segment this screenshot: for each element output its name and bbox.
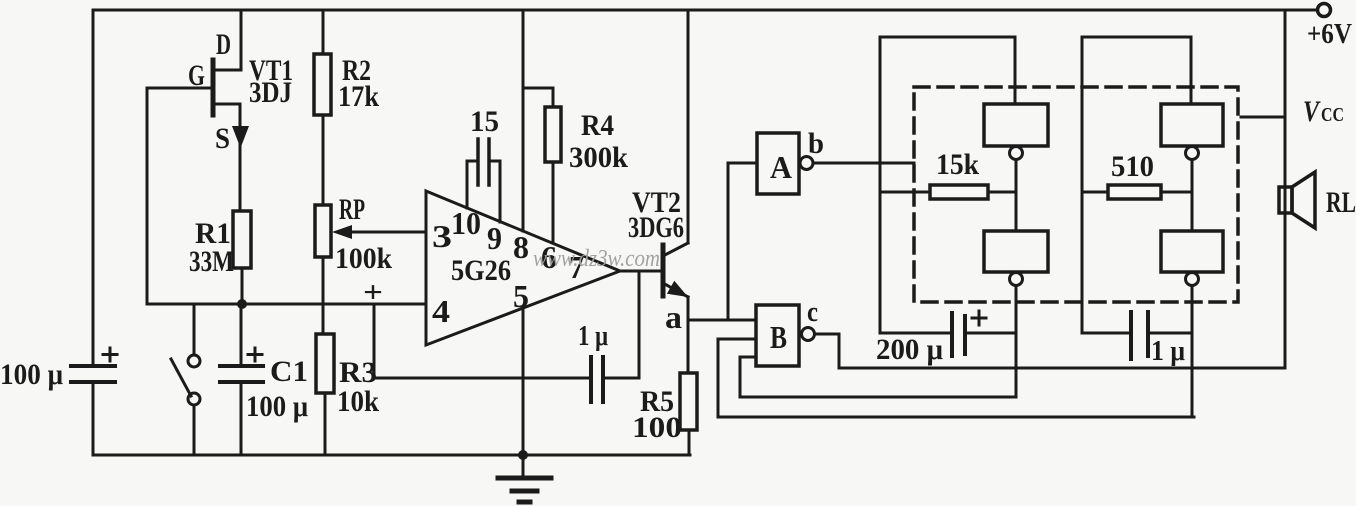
wire feedback 2 (bottom bubble right half to B): [718, 416, 1194, 419]
svg-text:1 μ: 1 μ: [1151, 336, 1185, 367]
transistor VT1 3DJ (JFET): [211, 60, 216, 115]
svg-text:a: a: [665, 299, 682, 335]
svg-text:300k: 300k: [569, 141, 628, 174]
wire Vcc / speaker branch: [1284, 10, 1287, 368]
svg-text:17k: 17k: [338, 80, 379, 113]
svg-text:3DG6: 3DG6: [628, 211, 684, 244]
block U2a: [984, 104, 1048, 146]
dashed module box: [914, 87, 1238, 302]
wire module output: [1241, 116, 1285, 119]
wire pin 5 to ground: [522, 308, 525, 455]
svg-text:4: 4: [432, 293, 450, 329]
svg-text:100: 100: [632, 411, 682, 444]
svg-text:8: 8: [513, 229, 529, 265]
svg-text:c: c: [807, 297, 818, 328]
block U3a: [1161, 104, 1223, 146]
svg-text:3DJ: 3DJ: [249, 76, 292, 109]
svg-text:100k: 100k: [335, 242, 392, 275]
svg-text:RP: RP: [339, 193, 365, 226]
block U3b: [1161, 231, 1223, 272]
svg-text:9: 9: [487, 220, 502, 256]
svg-text:G: G: [188, 59, 205, 92]
svg-text:15k: 15k: [936, 148, 979, 181]
ground junction dot: [518, 450, 528, 460]
wire feedback 1 (bottom bubble left half to B): [740, 396, 1016, 399]
resistor R4 300k: [523, 88, 553, 107]
svg-text:www.dz3w.com: www.dz3w.com: [533, 246, 660, 272]
terminal +6V: [1318, 4, 1331, 17]
svg-text:RL: RL: [1326, 186, 1356, 219]
transistor VT2 3DG6: [661, 245, 666, 296]
svg-text:+: +: [363, 276, 383, 309]
node junction (R1/C1/+input wire): [237, 299, 247, 309]
wire op-amp output to VT2 base: [620, 270, 661, 273]
capacitor 200u: [880, 332, 952, 335]
op-amp U1 5G26: [426, 191, 620, 345]
svg-text:D: D: [216, 28, 231, 61]
resistor R3 10k: [316, 334, 334, 393]
svg-text:510: 510: [1111, 150, 1154, 183]
block U2b: [984, 231, 1048, 272]
svg-text:R4: R4: [581, 109, 614, 142]
capacitor C1 100u: [240, 304, 243, 366]
capacitor 1u (right): [1082, 332, 1131, 335]
resistor 510: [1082, 191, 1108, 194]
svg-text:V: V: [1303, 95, 1321, 128]
capacitor 15 (between pins 10 and 9): [467, 161, 478, 208]
wire multivibrator right loop: [1082, 37, 1191, 333]
capacitor 100u (left, electrolytic in left border): [71, 364, 115, 368]
capacitor 1u (feedback): [603, 271, 639, 378]
svg-text:A: A: [770, 149, 792, 185]
svg-text:100 μ: 100 μ: [246, 390, 308, 423]
svg-text:+6V: +6V: [1307, 19, 1352, 50]
wire left border vertical: [92, 10, 95, 364]
svg-text:5: 5: [513, 278, 529, 314]
wire bottom ground rail: [93, 454, 690, 457]
wire top +6V supply rail: [93, 9, 1317, 12]
wire multivibrator left loop: [880, 37, 1015, 333]
svg-text:5G26: 5G26: [451, 254, 511, 287]
svg-text:1 μ: 1 μ: [578, 321, 608, 352]
resistor R5 100: [687, 320, 690, 373]
svg-text:C1: C1: [270, 355, 308, 388]
ground symbol: [522, 455, 525, 478]
svg-text:3: 3: [432, 218, 452, 254]
svg-text:CC: CC: [1321, 104, 1344, 126]
svg-text:100 μ: 100 μ: [0, 358, 63, 391]
svg-text:S: S: [215, 122, 230, 155]
resistor 15k: [880, 191, 930, 194]
resistor R2 17k: [322, 10, 325, 54]
svg-text:200 μ: 200 μ: [876, 333, 943, 366]
svg-text:B: B: [770, 319, 787, 355]
svg-text:10k: 10k: [337, 385, 379, 418]
switch S1: [193, 304, 196, 355]
speaker RL: [1279, 187, 1292, 213]
potentiometer RP 100k: [315, 205, 331, 257]
node a: [688, 319, 756, 322]
gate A: [728, 163, 757, 320]
wire pin 8 to +rail: [522, 10, 525, 231]
gate B: [756, 305, 799, 366]
resistor R1 33M: [233, 211, 251, 268]
svg-text:10: 10: [451, 205, 481, 241]
wire op-amp noninverting input (pin4): [147, 303, 426, 306]
svg-text:15: 15: [470, 105, 499, 138]
svg-text:33M: 33M: [189, 245, 234, 278]
svg-text:b: b: [808, 127, 824, 160]
